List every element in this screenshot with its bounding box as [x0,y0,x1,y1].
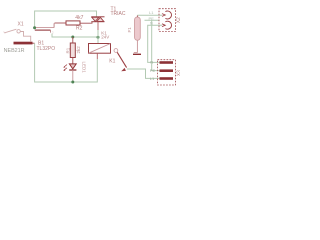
svg-text:4k7: 4k7 [75,15,83,21]
wire: X2 N down to X3 N [148,25,162,62]
fuse F1 top lead [136,15,138,17]
component B1 pin 2 (dark wire + tick) [35,29,51,31]
svg-text:24V: 24V [101,34,109,39]
svg-text:X2: X2 [176,17,180,23]
LED1 triangle [69,64,76,69]
LED1 cathode lead [72,70,74,81]
svg-text:X3: X3 [176,70,180,76]
resistor R2 body [66,21,80,25]
switch X1 blade end tick [4,32,6,34]
relay contact throw terminal bar [133,53,141,55]
relay coil bottom lead [96,53,98,59]
connector X2 socket 1 arc [165,11,171,19]
wire: bar to left rail [33,42,35,44]
svg-text:TRIAC: TRIAC [111,11,126,17]
relay contact blade [117,52,126,67]
LED1 cathode bar [69,69,76,71]
relay contact pole terminal [114,49,118,53]
svg-text:NEB21R: NEB21R [4,48,25,54]
svg-text:R2: R2 [76,26,83,32]
svg-text:L1: L1 [149,10,154,15]
wire: left rail / bottom rail [35,43,98,82]
svg-text:R1: R1 [66,47,71,53]
relay contact blade arrow [121,68,126,71]
svg-text:F1: F1 [127,27,132,33]
relay K1 coil diagonal [89,44,111,54]
relay K1 coil rectangle [89,44,111,54]
LED1 emission arrows [64,65,67,71]
fuse F1 bottom lead with end tick [134,40,138,52]
svg-text:N: N [150,20,153,25]
pin stub between R2 lead and B1 pin1 [53,23,55,28]
svg-text:N: N [150,60,153,65]
resistor R1 body [70,43,75,58]
wire: relay contact to X3 L1 [127,69,160,78]
triac T1 MT1 lead down [97,22,99,30]
component B1 pin 1 (pale wire + tick) [36,24,54,28]
svg-text:PE: PE [150,68,156,73]
wire: X2 PE stub down to X3 PE [145,20,160,70]
node: triac MT1 / relay coil junction [97,36,100,39]
connector X2 socket 1 pin wedge [162,14,165,17]
node: LED1 to bottom rail [71,81,74,84]
switch X1 blade [5,29,17,33]
switch X1 pivot circle [17,30,20,33]
connector X2 socket 2 pin wedge [162,24,165,27]
node: junction at X1 / B1 pin1 [33,26,36,29]
node: R1 branch junction [71,36,74,39]
svg-text:TL32PO: TL32PO [37,46,56,52]
connector X3 pin PE [160,69,174,72]
triac T1 bars [91,17,104,22]
connector X2 outline (dashed) [159,9,176,32]
wire: switch X1 to NEB body pin [20,32,30,42]
resistor R2 left lead + tick [55,22,67,24]
svg-text:X1: X1 [18,21,24,27]
wire: R1 to LED1 [72,58,74,64]
connector X3 pin L1 [160,77,174,80]
wire: B1 pin2 to gate/coil node [52,34,98,37]
connector X3 pin N [160,61,174,64]
svg-text:L1: L1 [150,76,155,81]
svg-text:2k2: 2k2 [76,46,81,54]
wire: triac MT1 to relay coil [97,30,99,44]
svg-text:K1: K1 [109,58,115,64]
connector X1 body pin bar (NEB21R) [14,42,33,45]
connector X3 outline (dashed) [158,60,176,85]
svg-text:LED1: LED1 [81,62,86,74]
resistor R1 lead from junction [72,37,74,43]
wire: top rail from X1 junction to triac MT2 [35,11,97,27]
resistor R2 right lead to triac gate [80,22,92,23]
fuse F1 body [135,17,141,40]
connector X2 socket 2 arc [165,21,171,29]
triac T1 triangles [92,17,99,21]
wire: fuse top to X2 L1 socket [137,14,162,16]
